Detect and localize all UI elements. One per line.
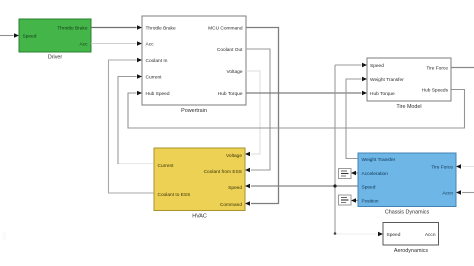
wire Weight Transfer from Chassis to Tire Model bbox=[346, 77, 367, 159]
svg-text:Coolant from ESS: Coolant from ESS bbox=[204, 169, 242, 175]
wire Throttle Brake (bold) bbox=[91, 25, 142, 29]
wire HVAC Current to Powertrain Current bbox=[118, 74, 154, 164]
svg-text:Coolant to ESS: Coolant to ESS bbox=[158, 192, 191, 198]
block Chassis Dynamics bbox=[358, 153, 456, 216]
svg-text:Coolant In: Coolant In bbox=[146, 58, 168, 64]
wire Tire Force into Chassis (arrow, faint stub) bbox=[456, 164, 474, 168]
faint artifact block at left edge bbox=[3, 232, 7, 240]
svg-text:Powertrain: Powertrain bbox=[181, 108, 207, 114]
svg-text:Current: Current bbox=[146, 74, 163, 80]
svg-text:Hub Torque: Hub Torque bbox=[370, 91, 395, 97]
svg-text:Speed: Speed bbox=[23, 33, 37, 39]
block Scope2 (Position) bbox=[339, 195, 352, 205]
wire Voltage to HVAC Voltage (faint) bbox=[245, 71, 260, 156]
svg-text:Coolant Out: Coolant Out bbox=[217, 47, 243, 53]
wire Tire Force out to image edge bbox=[451, 67, 474, 69]
svg-text:Acc: Acc bbox=[80, 41, 89, 47]
wire Position to Scope2 bbox=[351, 198, 358, 202]
wire MCU Command (bold) to HVAC Command bbox=[245, 28, 279, 206]
wire Speed net from Chassis to HVAC Speed bbox=[245, 184, 358, 188]
svg-text:Hub Torque: Hub Torque bbox=[218, 91, 243, 97]
wire Hub Torque to Tire Model bbox=[246, 91, 367, 95]
junction dot Speed net bbox=[333, 184, 336, 187]
svg-text:Tire Force: Tire Force bbox=[426, 66, 448, 72]
wire Hub Speeds return to Powertrain Hub Speed bbox=[128, 90, 465, 129]
wire Speed feedback into Driver bbox=[0, 33, 19, 37]
svg-text:Current: Current bbox=[158, 163, 175, 169]
svg-text:Position: Position bbox=[362, 198, 379, 204]
svg-text:Speed: Speed bbox=[370, 63, 384, 69]
wire Acceleration to Scope1 bbox=[351, 171, 358, 175]
block Aerodynamics bbox=[383, 223, 439, 255]
svg-text:Hub Speeds: Hub Speeds bbox=[422, 88, 449, 94]
wire Speed branch down to Aerodynamics bbox=[335, 186, 383, 236]
svg-text:Acc: Acc bbox=[146, 41, 155, 47]
block Driver bbox=[19, 19, 91, 61]
block HVAC bbox=[154, 148, 245, 220]
svg-text:Weight Transfer: Weight Transfer bbox=[362, 157, 396, 163]
svg-text:Hub Speed: Hub Speed bbox=[146, 91, 170, 97]
svg-text:MCU Command: MCU Command bbox=[208, 25, 243, 31]
svg-text:Chassis Dynamics: Chassis Dynamics bbox=[385, 210, 430, 216]
svg-text:Voltage: Voltage bbox=[226, 69, 242, 75]
block Tire Model bbox=[367, 58, 451, 110]
svg-text:Throttle Brake: Throttle Brake bbox=[146, 25, 176, 31]
svg-text:Accn: Accn bbox=[425, 232, 436, 238]
corner dot Speed to Aerodynamics bbox=[334, 232, 337, 235]
svg-text:Weight Transfer: Weight Transfer bbox=[370, 77, 404, 83]
wire Acc bbox=[91, 41, 142, 45]
svg-text:Tire Force: Tire Force bbox=[431, 164, 453, 170]
svg-text:Speed: Speed bbox=[362, 184, 376, 190]
svg-text:Aerodynamics: Aerodynamics bbox=[394, 248, 428, 254]
svg-text:Speed: Speed bbox=[228, 185, 242, 191]
wire Accn into Chassis from edge bbox=[456, 190, 474, 194]
svg-text:Speed: Speed bbox=[387, 232, 401, 238]
block Powertrain bbox=[142, 16, 246, 114]
svg-text:Acceleration: Acceleration bbox=[362, 171, 389, 177]
svg-text:Driver: Driver bbox=[48, 55, 63, 61]
svg-text:Throttle Brake: Throttle Brake bbox=[57, 25, 87, 31]
svg-text:Command: Command bbox=[220, 202, 242, 208]
svg-text:Tire Model: Tire Model bbox=[396, 104, 421, 110]
wire HVAC Coolant to ESS to Powertrain Coolant In bbox=[109, 58, 155, 193]
wire Speed branch up to Tire Model Speed bbox=[335, 63, 367, 186]
svg-text:HVAC: HVAC bbox=[192, 214, 207, 220]
svg-text:Accn: Accn bbox=[442, 190, 453, 196]
svg-text:Voltage: Voltage bbox=[226, 153, 242, 159]
block Scope1 (Acceleration) bbox=[339, 169, 352, 179]
wire Coolant Out to HVAC Coolant from ESS bbox=[245, 49, 270, 172]
